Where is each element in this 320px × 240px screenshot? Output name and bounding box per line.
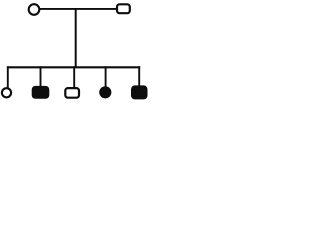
wire: sibship bar (7, 66, 140, 68)
wire: drop to child II-4 (105, 66, 107, 86)
male II-3: open square (unaffected) (65, 88, 79, 98)
male II-5: filled square (affected) (131, 85, 148, 99)
male I-2: open square (117, 4, 130, 13)
wire: drop to child II-1 (7, 66, 9, 88)
female II-1: open circle (unaffected) (2, 88, 11, 97)
wire: vertical descent line from couple to sibship bar (75, 8, 77, 67)
wire: drop to child II-2 (40, 66, 42, 86)
wire: drop to child II-3 (73, 66, 75, 88)
male II-2: filled square (affected) (32, 86, 50, 99)
wire: couple line I-1 to I-2 (38, 8, 117, 10)
female II-4: filled circle (affected) (99, 86, 111, 98)
wire: drop to child II-5 (138, 66, 140, 86)
female I-1: open circle (29, 4, 40, 15)
